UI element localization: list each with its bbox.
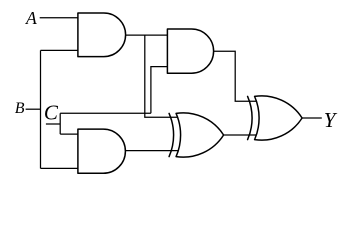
and-gate U3: [78, 129, 126, 173]
wire U4 output to U5 lower input: [224, 134, 257, 136]
wire U3 output to U4 lower input: [125, 150, 177, 152]
wire B input stub: [26, 108, 41, 110]
wire C lower branch to U3 upper input: [60, 133, 78, 135]
wire A input: [40, 17, 78, 19]
wire B vertical bus: [40, 50, 42, 168]
wire C riser: [59, 113, 61, 134]
wire C input stub: [46, 123, 60, 125]
wire C riser to U2 lower input: [151, 67, 168, 114]
xor-gate U5 body: [255, 96, 303, 140]
wire B to U3 lower input: [41, 167, 79, 169]
and-gate U1: [78, 13, 126, 57]
svg-text:B: B: [15, 100, 25, 117]
wire U2 output to U5 upper input: [214, 51, 257, 101]
xor-gate U4 input arc: [169, 113, 173, 156]
svg-text:Y: Y: [324, 108, 338, 132]
wire B to U1 lower input: [41, 49, 79, 51]
wire U1 output to U2 upper input: [126, 34, 168, 36]
svg-text:A: A: [25, 8, 37, 28]
wire U1 output branch to U4 upper input: [145, 35, 178, 117]
and-gate U2: [167, 29, 213, 73]
wire U5 output to Y: [302, 117, 322, 119]
wire C upper branch: [60, 112, 151, 114]
xor-gate U5 input arc: [248, 96, 252, 139]
svg-text:C: C: [44, 101, 59, 125]
xor-gate U4 body: [176, 113, 224, 157]
